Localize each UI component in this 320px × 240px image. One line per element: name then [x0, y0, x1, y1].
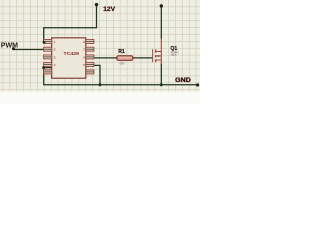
svg-text:R1: R1 — [118, 49, 125, 55]
svg-text:GND: GND — [175, 77, 191, 84]
svg-text:<TEXT>: <TEXT> — [119, 61, 125, 65]
svg-text:12V: 12V — [103, 6, 116, 13]
svg-text:PWM: PWM — [1, 40, 18, 49]
svg-text:TC429: TC429 — [64, 51, 80, 57]
svg-text:<TEXT>: <TEXT> — [171, 53, 177, 57]
